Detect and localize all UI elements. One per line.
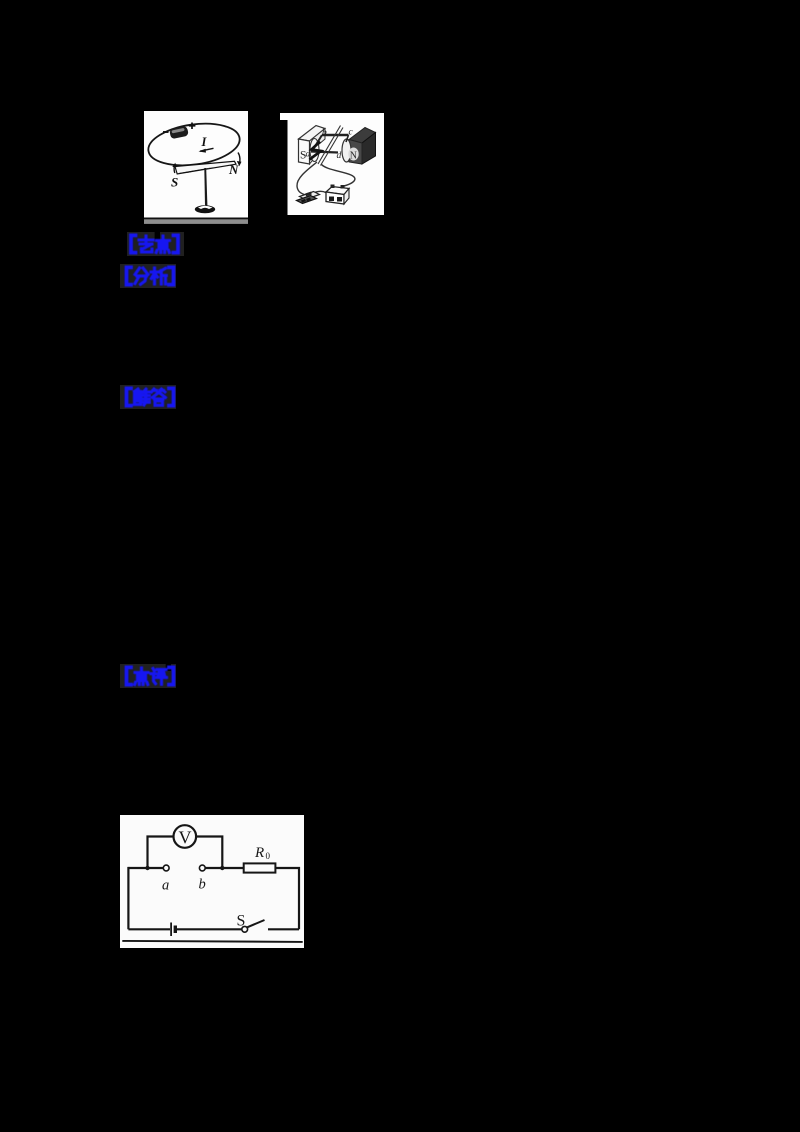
junction dots (145, 866, 149, 870)
svg-text:S: S (237, 913, 246, 930)
svg-text:R: R (254, 845, 264, 861)
svg-text:0: 0 (266, 851, 271, 861)
label 【分析】 (120, 264, 176, 288)
wire resistor to right (275, 868, 299, 929)
circuit diagram figure (120, 815, 304, 953)
switch pivot (242, 926, 248, 932)
resistor R0 (244, 863, 276, 872)
figure: electromagnet / magnets with coil and battery (right top) (280, 112, 384, 220)
wire loop (146, 118, 243, 170)
svg-text:a: a (162, 878, 169, 894)
left side wire (127, 867, 129, 929)
needle bar (175, 161, 236, 174)
svg-text:S: S (171, 175, 178, 190)
underline (122, 941, 302, 942)
stand pillar (204, 168, 207, 206)
coil frame wires (322, 134, 349, 136)
switch (dark) (297, 192, 320, 204)
svg-text:N: N (228, 162, 239, 177)
S magnet block (299, 126, 326, 165)
svg-text:b: b (322, 128, 327, 138)
voltmeter left wire (148, 837, 174, 869)
middle wire switch to battery (311, 191, 326, 194)
wire to switch (left loop) (297, 162, 317, 195)
svg-text:V: V (179, 828, 192, 848)
bottom wire right (268, 928, 299, 930)
wire to battery (right loop) (321, 164, 355, 187)
switch blade (247, 920, 265, 927)
battery short plate (174, 926, 177, 934)
terminal b (199, 865, 205, 871)
white sliver top-left (280, 113, 289, 120)
bottom wire left (128, 928, 170, 930)
N magnet block (dark) (342, 128, 376, 165)
minus label (163, 131, 169, 133)
svg-text:b: b (199, 877, 206, 893)
plus label (189, 123, 196, 130)
label 【解答】 (120, 385, 176, 409)
figure: compass needle with current loop (left top) (144, 111, 248, 230)
slanted rod (318, 126, 341, 165)
svg-text:a: a (306, 150, 311, 160)
wire b to resistor (205, 867, 244, 869)
current arrow (200, 148, 214, 151)
voltmeter right wire (196, 837, 222, 869)
N arrow (down arc) (238, 153, 240, 165)
bottom wire middle (175, 928, 242, 930)
stand base (195, 205, 215, 213)
battery (169, 126, 189, 140)
terminal a (163, 865, 169, 871)
S arrow (up) (173, 165, 176, 174)
zigzag connector (310, 142, 322, 160)
main wire left segment (128, 867, 163, 869)
svg-text:d: d (337, 151, 342, 161)
label 【点评】 (120, 664, 176, 688)
gray base bar (144, 218, 248, 220)
battery long plate (170, 923, 172, 937)
svg-text:N: N (350, 151, 357, 162)
voltmeter V (174, 825, 197, 848)
battery (white box with terminals) (326, 185, 349, 205)
label 【考点】 (127, 232, 184, 256)
